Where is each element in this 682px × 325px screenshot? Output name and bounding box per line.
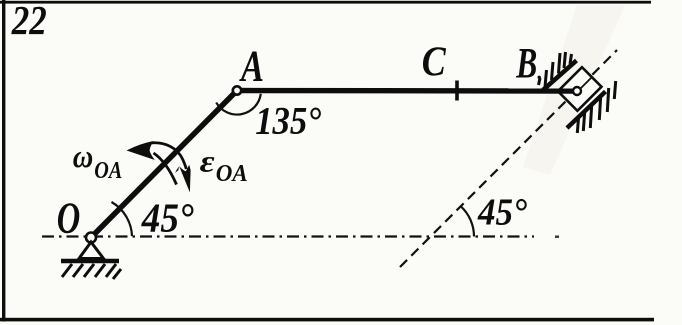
dash-dot horizontal axis line through O bbox=[42, 235, 534, 237]
svg-text:A: A bbox=[239, 41, 264, 90]
svg-text:O: O bbox=[57, 194, 80, 243]
svg-text:B: B bbox=[516, 40, 538, 87]
pin joint A bbox=[233, 86, 241, 94]
guide line dash visible inside slider bbox=[581, 77, 593, 89]
svg-text:ω: ω bbox=[73, 139, 94, 175]
fixed support triangle at O bbox=[79, 242, 104, 259]
dot after B bbox=[538, 76, 541, 79]
frame left border bbox=[2, 0, 5, 322]
svg-text:22: 22 bbox=[11, 0, 47, 43]
135-degree arc at A bbox=[216, 94, 261, 115]
omega_OA curved arrow arc bbox=[154, 153, 177, 185]
45-degree arc at lower intersection bbox=[461, 207, 474, 237]
slider block at B (white square rotated 45) bbox=[558, 67, 602, 111]
link AB bbox=[237, 88, 577, 94]
svg-text:OA: OA bbox=[216, 160, 248, 187]
support hatching bbox=[62, 264, 121, 279]
epsilon_OA arrowhead bbox=[179, 165, 190, 193]
pin joint O bbox=[86, 233, 96, 243]
extra dot of axis line bbox=[555, 236, 559, 238]
slider guide lower rail bbox=[567, 92, 606, 129]
support ground line bbox=[61, 259, 119, 264]
pin joint B bbox=[573, 87, 581, 95]
epsilon_OA curved arrow arc bbox=[151, 143, 187, 169]
slider guide upper rail bbox=[543, 61, 577, 91]
svg-text:C: C bbox=[422, 39, 447, 85]
midpoint C tick mark bbox=[455, 81, 459, 101]
svg-text:45°: 45° bbox=[477, 192, 527, 234]
hatching above upper rail bbox=[539, 52, 572, 87]
frame top border bbox=[0, 1, 651, 4]
svg-text:45°: 45° bbox=[141, 195, 194, 241]
hatching below lower rail bbox=[577, 81, 615, 133]
svg-text:ε: ε bbox=[200, 143, 215, 178]
45-degree arc at O bbox=[112, 202, 133, 236]
scan smudge top right bbox=[523, 5, 625, 175]
svg-text:135°: 135° bbox=[255, 99, 321, 143]
omega_OA arrowhead bbox=[127, 141, 155, 160]
link OA bbox=[91, 91, 237, 238]
svg-text:OA: OA bbox=[94, 157, 122, 184]
epsilon arrowhead left barb bbox=[175, 166, 179, 173]
dashed 45-degree guide line through B bbox=[400, 50, 617, 267]
frame bottom border bbox=[0, 318, 654, 322]
